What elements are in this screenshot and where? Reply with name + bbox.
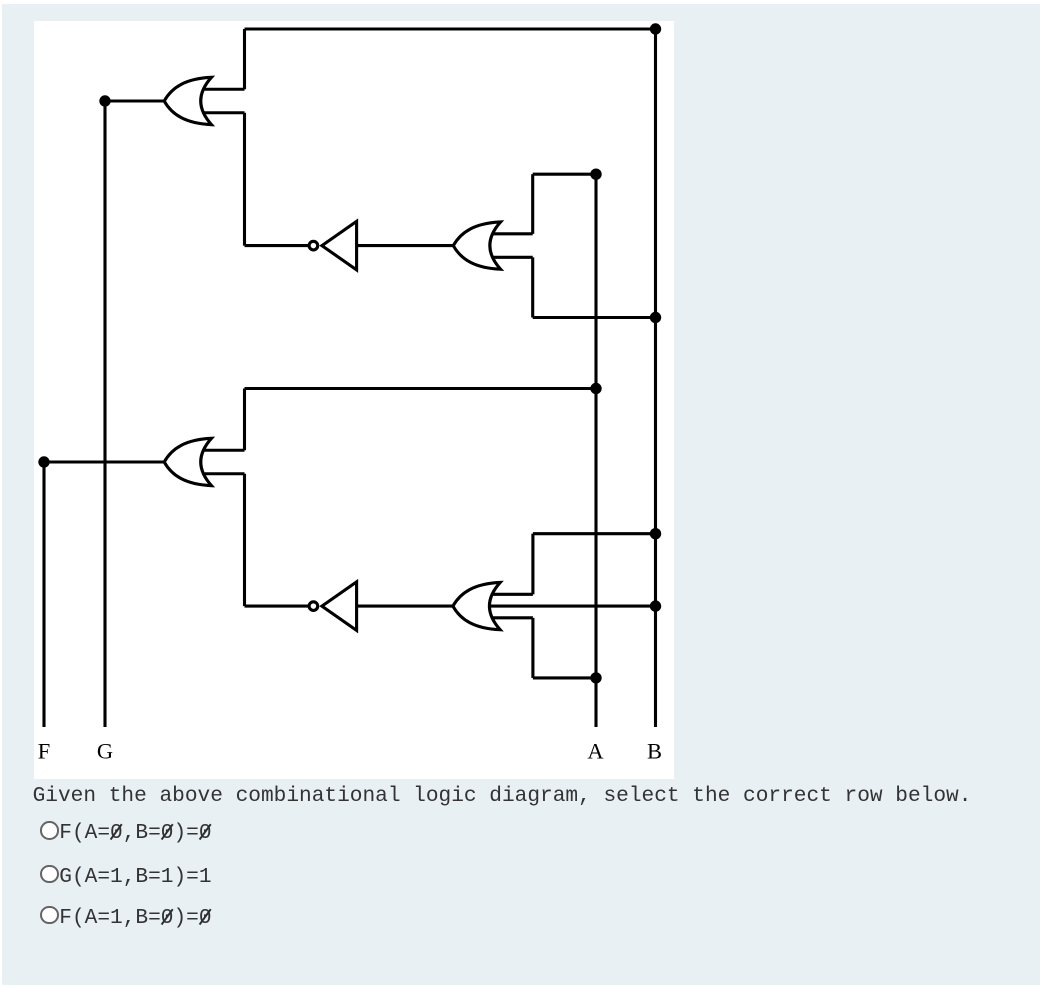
node: junction on A rail — [590, 383, 601, 394]
pin: U4 input stub bottom — [203, 472, 245, 475]
node: junction on B rail — [650, 312, 661, 323]
option 3 text — [59, 909, 211, 928]
wire: F rail — [42, 462, 45, 727]
wire: U6 top input up — [531, 534, 534, 595]
option 2 radio — [40, 865, 59, 884]
pin: U1 input stub bottom — [203, 111, 245, 114]
or-gate U6 (3-input, faces left) — [453, 582, 656, 629]
wire: A rail — [594, 174, 597, 727]
wire: U1 top input up — [243, 29, 246, 89]
wire: to U5 output bubble — [245, 605, 309, 608]
wire: U3 output to U2 input — [357, 244, 454, 247]
option 1 radio — [40, 821, 59, 840]
or-gate U1 (2-input, faces left, output to G) — [164, 77, 244, 124]
wire: U1 output to G rail — [105, 99, 166, 102]
wire: to U2 output bubble — [245, 244, 309, 247]
wire: across to B rail — [533, 316, 656, 319]
svg-text:F: F — [38, 739, 51, 764]
pin: U3 input stub bottom — [492, 256, 533, 259]
svg-text:B: B — [647, 739, 662, 764]
inverter U2 (faces left) — [309, 221, 357, 270]
wire: U4 bottom input down — [243, 474, 246, 606]
node: junction on B rail middle input — [650, 600, 661, 611]
pin: U6 input stub top — [492, 593, 533, 596]
svg-text:G: G — [97, 739, 113, 764]
wire: top horizontal to B — [245, 27, 656, 30]
inverter U5 (faces left) — [309, 582, 357, 631]
pin: U1 input stub top — [203, 88, 245, 91]
or-gate U4 (2-input, faces left, output to F) — [164, 438, 244, 485]
wire: U6 bottom input down — [531, 618, 534, 678]
node: junction on A rail top — [590, 169, 601, 180]
pin: U6 input middle (to B rail) — [490, 605, 656, 608]
question text — [33, 787, 972, 806]
node: junction on F rail — [38, 456, 49, 467]
svg-text:A: A — [587, 739, 604, 764]
option 3 radio — [40, 906, 59, 925]
wire: U1 bottom input down — [243, 113, 246, 246]
node: junction on B rail top — [650, 23, 661, 34]
wire: across to B rail — [533, 532, 656, 535]
wire: B rail — [654, 29, 657, 727]
white drawing canvas — [34, 21, 674, 779]
wire: across to A rail — [533, 676, 596, 679]
wire: G rail — [103, 101, 106, 727]
node: junction on B rail — [650, 528, 661, 539]
pin: U6 input stub bottom — [492, 616, 533, 619]
pin: U4 input stub top — [203, 449, 245, 452]
wire: U4 top input up — [243, 389, 246, 451]
wire: U4 output to F rail — [44, 460, 166, 463]
option 1 text — [59, 824, 211, 843]
option 2 text — [59, 868, 211, 887]
node: junction on A rail bottom — [590, 672, 601, 683]
wire: U3 top input up — [531, 174, 534, 234]
node: junction on G rail — [99, 95, 110, 106]
pin: U3 input stub top — [492, 232, 533, 235]
wire: U6 output to U5 input — [357, 605, 454, 608]
wire: across to A rail — [245, 387, 597, 390]
wire: U3 bottom input down — [531, 257, 534, 317]
or-gate U3 (2-input, faces left) — [453, 222, 532, 269]
wire: across to A rail — [533, 173, 596, 176]
